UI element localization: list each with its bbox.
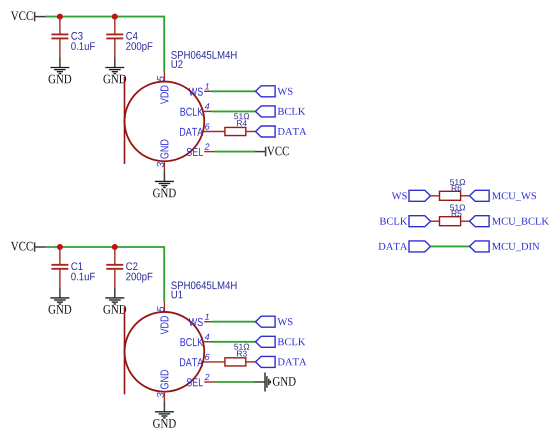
- label R5 value 51R: [450, 204, 465, 210]
- pin number 6 of U2: [205, 123, 210, 129]
- pin number 1 of U2: [205, 83, 209, 89]
- ground under C2: [103, 287, 126, 313]
- pin name GND of U1: [160, 370, 168, 389]
- power flag VCC (left, U1 section): [11, 242, 46, 252]
- net flag WS (series): [409, 190, 431, 201]
- resistor R4: [225, 127, 246, 135]
- label R6 value 51R: [450, 179, 465, 185]
- label MCU_WS flag: [492, 192, 536, 200]
- wire U2 BCLK to flag: [212, 110, 256, 112]
- net flag MCU_BCLK: [470, 216, 490, 227]
- wire U2 WS to flag: [212, 90, 256, 92]
- U1 DATA pin wire: [203, 361, 225, 363]
- net flag DATA (U1): [256, 356, 276, 367]
- net flag DATA (series): [409, 241, 431, 252]
- ground under C3: [49, 57, 72, 83]
- label R3 value 51R: [234, 344, 249, 350]
- label DATA flag (U1): [278, 358, 307, 365]
- net flag BCLK (series): [409, 216, 431, 227]
- label C1 name: [71, 262, 82, 270]
- junction at C1: [57, 244, 63, 250]
- net flag BCLK (U2): [256, 106, 276, 117]
- label WS flag (series): [392, 192, 407, 199]
- capacitor C3: [51, 17, 68, 57]
- net flag WS (U1): [256, 316, 276, 327]
- capacitor C1: [51, 247, 68, 287]
- wire VCC rail to U1 VDD: [46, 247, 165, 302]
- pin name BCLK of U1: [181, 338, 204, 346]
- U1 WS pin wire: [204, 321, 211, 323]
- pin number 5 of U1: [157, 306, 164, 311]
- label C3 value: [71, 42, 95, 50]
- label MCU_DIN flag: [492, 243, 539, 251]
- microphone U2 GND pin 3: [163, 161, 165, 171]
- U2 WS pin wire: [204, 90, 211, 92]
- U2 BCLK pin wire: [203, 110, 212, 112]
- label U2 value SPH0645LM4H: [171, 51, 236, 59]
- wire BCLK flag to R5: [431, 220, 440, 222]
- label C2 name: [126, 262, 137, 270]
- label U2 reference: [172, 60, 183, 68]
- wire U2 SEL to VCC: [215, 151, 255, 153]
- wire U1 SEL to GND: [215, 381, 255, 383]
- pin name SEL of U2: [187, 148, 203, 156]
- resistor R3: [225, 358, 246, 366]
- label WS flag (U2): [277, 88, 292, 95]
- wire WS flag to R6: [431, 195, 440, 197]
- junction at C2: [112, 244, 118, 250]
- label DATA flag (series): [379, 243, 408, 250]
- pin number 4 of U1: [205, 334, 210, 340]
- wire R4 to DATA flag: [246, 131, 256, 133]
- pin name BCLK of U2: [181, 108, 204, 116]
- net flag BCLK (U1): [256, 336, 276, 347]
- wire VCC rail to U2 VDD: [46, 17, 165, 72]
- pin name GND of U2: [160, 140, 168, 159]
- pin number 6 of U1: [205, 354, 210, 360]
- pin number 5 of U2: [157, 76, 164, 81]
- resistor R6: [440, 191, 461, 200]
- microphone U1 body: [125, 307, 205, 394]
- label C3 name: [71, 32, 82, 40]
- pin name WS of U2: [189, 88, 203, 96]
- label DATA flag (U2): [278, 128, 307, 135]
- pin number 1 of U1: [205, 314, 209, 320]
- label R5 reference: [452, 211, 462, 217]
- pin name VDD of U1: [160, 316, 168, 334]
- label C4 value: [126, 42, 152, 52]
- wire R6 to MCU_WS flag: [461, 195, 470, 197]
- wire U1 WS to flag: [212, 321, 256, 323]
- microphone U1 GND pin 3: [163, 391, 165, 401]
- label R6 reference: [452, 185, 462, 191]
- capacitor C2: [106, 247, 123, 287]
- ground under U2: [153, 171, 176, 197]
- pin name VDD of U2: [160, 86, 168, 104]
- power flag VCC (left, U2 section): [11, 11, 46, 21]
- label MCU_BCLK flag: [492, 218, 549, 226]
- ground at U1 SEL: [254, 373, 295, 392]
- label R4 reference: [237, 120, 247, 126]
- wire DATA to MCU_DIN: [431, 245, 470, 247]
- wire R5 to MCU_BCLK flag: [461, 220, 470, 222]
- wire U1 BCLK to flag: [212, 341, 256, 343]
- capacitor C4: [106, 17, 123, 57]
- pin number 4 of U2: [205, 103, 210, 109]
- microphone U1 VDD pin 5: [163, 302, 165, 313]
- pin name DATA of U2: [180, 128, 203, 136]
- U2 SEL pin wire: [204, 151, 214, 153]
- U1 SEL pin wire: [204, 381, 214, 383]
- label U1 reference: [172, 291, 183, 299]
- pin name DATA of U1: [180, 358, 203, 366]
- label C1 value: [71, 273, 95, 281]
- junction at C4: [112, 14, 118, 20]
- pin number 3 of U2: [157, 162, 164, 167]
- net flag MCU_WS: [470, 190, 490, 201]
- label U1 value SPH0645LM4H: [171, 281, 236, 289]
- pin number 3 of U1: [157, 393, 164, 398]
- pin name SEL of U1: [187, 378, 203, 386]
- label C2 value: [126, 273, 152, 283]
- U2 DATA pin wire: [203, 131, 225, 133]
- microphone U2 body: [125, 77, 205, 164]
- junction at C3: [57, 14, 63, 20]
- power flag VCC at U2 SEL: [255, 147, 289, 157]
- label R4 value 51R: [234, 113, 249, 119]
- net flag WS (U2): [256, 86, 276, 97]
- microphone U2 VDD pin 5: [163, 72, 165, 83]
- wire R3 to DATA flag: [246, 361, 256, 363]
- label WS flag (U1): [277, 318, 292, 325]
- net flag DATA (U2): [256, 126, 276, 137]
- pin name WS of U1: [189, 318, 203, 326]
- ground under C4: [103, 57, 126, 83]
- label BCLK flag (U2): [278, 108, 306, 115]
- ground under C1: [49, 287, 72, 313]
- label C4 name: [126, 32, 137, 40]
- pin number 2 of U1: [205, 374, 210, 380]
- label BCLK flag (series): [380, 218, 408, 225]
- U1 BCLK pin wire: [203, 341, 212, 343]
- resistor R5: [440, 217, 461, 226]
- ground under U1: [153, 401, 176, 427]
- label R3 reference: [237, 351, 247, 357]
- pin number 2 of U2: [205, 143, 210, 149]
- label BCLK flag (U1): [278, 338, 306, 345]
- net flag MCU_DIN: [470, 241, 490, 252]
